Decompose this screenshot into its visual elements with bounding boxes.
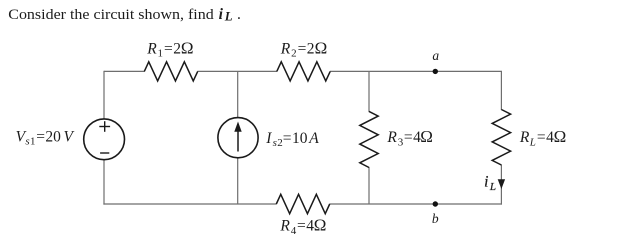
current source Is2 bbox=[218, 118, 258, 158]
node a (junction dot) bbox=[433, 69, 438, 74]
svg-text:RL=4Ω: RL=4Ω bbox=[519, 127, 566, 148]
svg-text:a: a bbox=[432, 48, 439, 63]
svg-text:R4=4Ω: R4=4Ω bbox=[279, 216, 326, 237]
wire: left rail lower (Vs1 bottom to bottom-left corner) bbox=[103, 160, 105, 205]
svg-text:iL.: iL. bbox=[219, 6, 241, 24]
wire: bottom wire, left rail to R4 bbox=[103, 203, 276, 205]
wire: R3 branch upper lead bbox=[368, 71, 370, 112]
svg-text:iL: iL bbox=[484, 174, 496, 194]
resistor R1 bbox=[144, 62, 197, 81]
wire: middle branch upper (top wire to Is2 top) bbox=[237, 71, 239, 118]
voltage source Vs1 bbox=[84, 119, 125, 160]
resistor R4 bbox=[276, 194, 329, 213]
node b (junction dot) bbox=[433, 201, 438, 206]
wire: R3 branch lower lead bbox=[368, 167, 370, 204]
resistor R2 bbox=[277, 62, 330, 81]
svg-text:R3=4Ω: R3=4Ω bbox=[386, 127, 433, 148]
current iL arrow (downward on right rail) bbox=[498, 179, 505, 189]
minus sign of Vs1 bbox=[100, 152, 109, 154]
resistor RL (vertical) bbox=[492, 110, 510, 166]
wire: top wire, R1 to R2 bbox=[197, 70, 277, 72]
arrow of Is2 (upward) bbox=[234, 122, 241, 152]
svg-text:Consider the circuit shown, fi: Consider the circuit shown, find bbox=[8, 7, 213, 23]
plus sign of Vs1 bbox=[99, 121, 110, 132]
wire: middle branch lower (Is2 bottom to bottom wire) bbox=[237, 158, 239, 205]
wire: bottom wire, R4 to bottom-right corner bbox=[330, 203, 503, 205]
svg-text:R2=2Ω: R2=2Ω bbox=[280, 38, 327, 59]
wire: top wire, R2 to top-right corner bbox=[330, 70, 501, 72]
svg-text:b: b bbox=[432, 211, 439, 226]
wire: right rail upper lead (corner to RL) bbox=[500, 71, 502, 110]
wire: right rail lower (RL to bottom-right corner) bbox=[500, 165, 502, 205]
svg-text:R1=2Ω: R1=2Ω bbox=[146, 38, 193, 59]
wire: top wire, left rail to R1 bbox=[104, 70, 145, 72]
wire: left rail upper (top-left corner to Vs1 top) bbox=[103, 71, 105, 119]
svg-text:Vs1=20V: Vs1=20V bbox=[16, 128, 75, 147]
title: Consider the circuit shown, find iL. bbox=[8, 6, 241, 24]
svg-text:Is2=10A: Is2=10A bbox=[265, 130, 319, 149]
resistor R3 (vertical) bbox=[360, 111, 378, 167]
